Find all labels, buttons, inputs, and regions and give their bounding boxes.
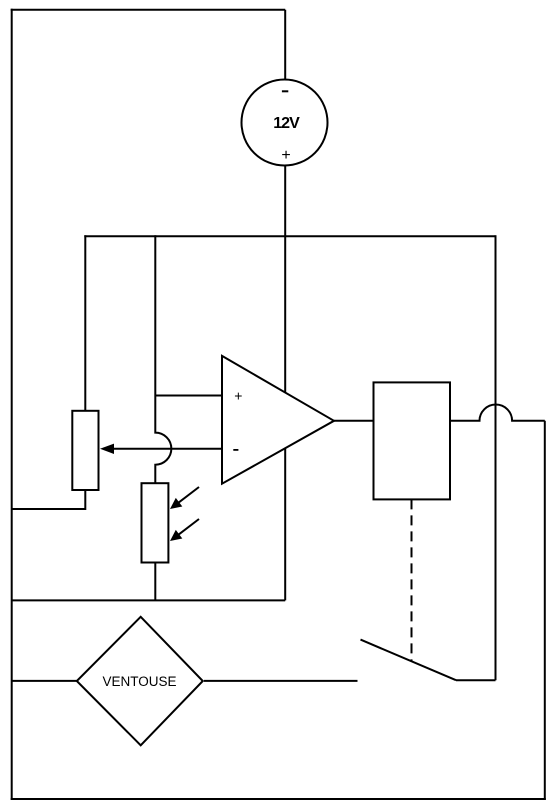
wire right-bus [495, 235, 497, 680]
wire frame-top [11, 9, 286, 11]
dashed actuation link [411, 499, 413, 662]
wire source-top [284, 10, 286, 80]
wire relay-output with hop [450, 405, 545, 421]
wire supply-bus [84, 235, 495, 237]
wire frame-bottom [11, 798, 546, 800]
wiper arrowhead [100, 444, 114, 454]
wire source-bottom-vertical [284, 166, 286, 601]
svg-text:+: + [281, 147, 290, 164]
LDR arrow 2 [170, 519, 199, 541]
wire ldr-top with hop [155, 235, 171, 483]
wire pot-bottom [12, 489, 86, 509]
relay coil K1 [374, 382, 451, 499]
wire opamp-minus-input wiper [113, 448, 222, 450]
wire diamond-left [12, 680, 77, 682]
potentiometer R1 [72, 411, 98, 490]
wire ldr-bottom [154, 562, 156, 601]
svg-text:+: + [234, 388, 242, 404]
wire frame-left [11, 9, 13, 800]
actuator diamond VENTOUSE [77, 617, 203, 746]
wire switch-left-contact [204, 680, 358, 682]
wire opamp-output [334, 420, 374, 422]
switch blade [361, 640, 457, 681]
svg-text:VENTOUSE: VENTOUSE [102, 674, 176, 689]
photoresistor LDR [142, 483, 169, 562]
voltage source V1 12V [242, 80, 328, 166]
op-amp U1 [222, 356, 334, 484]
LDR arrow 1 [170, 487, 199, 509]
svg-text:12V: 12V [273, 115, 300, 132]
wire ground-bus [12, 599, 286, 601]
wire opamp-plus-input [155, 395, 222, 397]
wire pot-top [84, 235, 86, 411]
wire switch-right [456, 679, 496, 681]
wire right-return [544, 421, 546, 800]
